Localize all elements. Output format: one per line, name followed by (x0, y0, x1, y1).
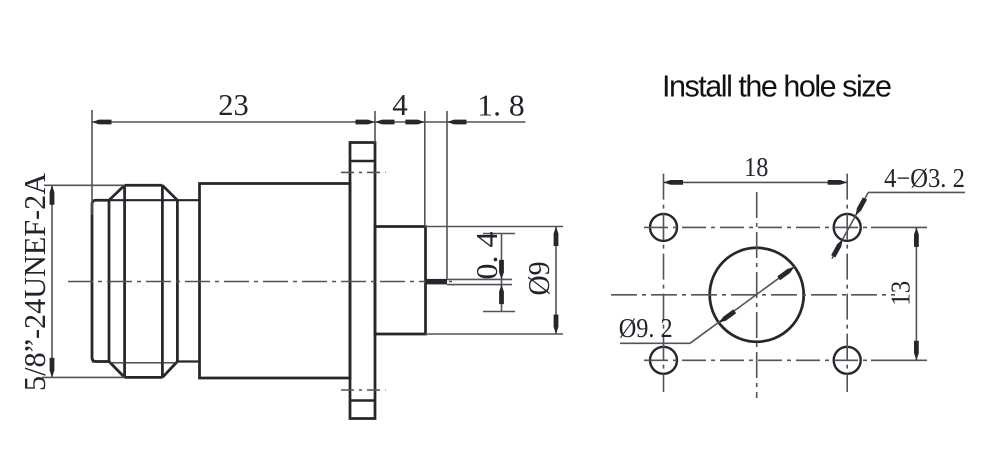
row centerline bottom (644, 359, 870, 361)
arrow D9.2 lower (718, 309, 737, 324)
extension line at x=92 (91, 110, 93, 215)
arrow 18 left (664, 180, 684, 185)
center crosshair horizontal (611, 294, 895, 296)
arrow 0.4 upper (499, 260, 504, 280)
rear insulator cylinder (375, 227, 426, 335)
arrow D9 top (554, 227, 559, 247)
arrow 13 bottom (914, 341, 919, 361)
svg-text:5/8”-24UNEF-2A: 5/8”-24UNEF-2A (17, 172, 52, 391)
extension line at x=447 (446, 111, 448, 279)
hex nut flats and chamfers (109, 185, 177, 377)
main axis centerline (68, 281, 452, 283)
svg-text:0. 4: 0. 4 (469, 231, 504, 280)
extension line at x=375 (374, 111, 376, 143)
svg-text:4: 4 (392, 87, 408, 122)
arrow 4 right (405, 120, 425, 125)
svg-text:Ø9. 2: Ø9. 2 (619, 313, 673, 343)
hole top-right (834, 214, 861, 241)
thread dimension 5/8-24UNEF-2A (51, 185, 53, 377)
flange mounting hole edge (bottom) (350, 399, 375, 401)
flange hole centerline bottom (341, 389, 386, 391)
hole top-left (650, 214, 677, 241)
dimension D9 (426, 226, 564, 228)
hex across-corner line bottom (109, 362, 177, 364)
arrow 13 top (914, 227, 919, 247)
flange mounting hole edge (top) (350, 160, 375, 162)
row centerline top (644, 226, 870, 228)
flange plate (350, 143, 375, 419)
svg-text:13: 13 (885, 281, 915, 306)
svg-text:Install the hole size: Install the hole size (662, 70, 892, 104)
svg-text:18: 18 (744, 152, 768, 182)
arrow 0.4 lower (499, 285, 504, 305)
arrow D9 bottom (554, 315, 559, 335)
svg-text:4−Ø3. 2: 4−Ø3. 2 (884, 163, 965, 193)
arrow 23 right (356, 120, 376, 125)
dimension 13 (915, 227, 917, 360)
arrow 5/8 dim top (50, 185, 55, 205)
svg-text:1. 8: 1. 8 (477, 88, 524, 123)
arrow D9.2 upper (777, 265, 796, 280)
svg-text:Ø9: Ø9 (521, 262, 556, 296)
coupling nut left cap (92, 200, 109, 361)
arrow 5/8 dim bottom (50, 358, 55, 378)
dimension line top (23 / 4 / 1.8) (92, 121, 526, 123)
arrow 23 left (92, 120, 112, 125)
hole bottom-right (834, 347, 861, 374)
main body cylinder (200, 184, 351, 379)
center crosshair vertical (756, 192, 758, 398)
arrow 4-D3.2 lower (831, 238, 845, 257)
dimension 0.4 (pin thickness) (447, 278, 512, 280)
hole bottom-left (650, 347, 677, 374)
arrow 4 left (375, 120, 395, 125)
arrow 4-D3.2 upper (853, 197, 867, 216)
leader D9.2 (620, 342, 690, 344)
nut shoulder lines to body (92, 200, 200, 361)
center hole circle (710, 248, 804, 342)
flange hole centerline top (341, 171, 386, 173)
leader 4-D3.2 (868, 191, 965, 193)
13 extension bottom (871, 359, 927, 361)
dimension 18 (664, 181, 848, 183)
column centerline right (846, 174, 848, 392)
center contact pin (426, 279, 448, 285)
13 extension top (871, 226, 927, 228)
arrow 18 right (828, 180, 848, 185)
column centerline left (663, 174, 665, 392)
arrow 1.8 outside (447, 120, 467, 125)
svg-text:23: 23 (218, 87, 249, 122)
extension line at x=424.8 (424, 111, 426, 227)
